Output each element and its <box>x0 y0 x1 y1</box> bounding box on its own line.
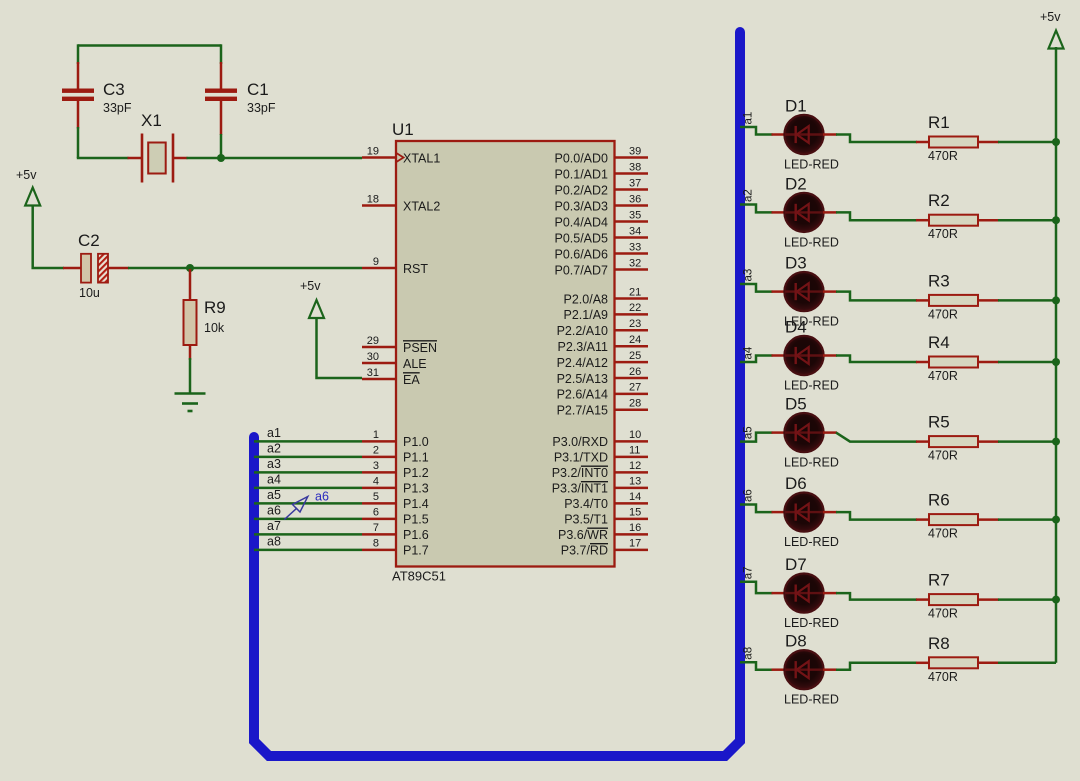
svg-text:470R: 470R <box>928 369 958 383</box>
svg-text:a7: a7 <box>743 567 755 580</box>
svg-text:470R: 470R <box>928 670 958 684</box>
LED D5 (LED-RED) <box>772 413 838 452</box>
svg-text:a5: a5 <box>743 426 755 439</box>
svg-text:R1: R1 <box>928 113 950 132</box>
svg-text:D8: D8 <box>785 632 807 651</box>
pin 35 P0.4/AD4 <box>554 209 648 229</box>
wire net a8 bus to P1.7 <box>254 549 362 552</box>
svg-text:C2: C2 <box>78 231 100 250</box>
resistor R9 (10k pulldown) <box>184 269 197 360</box>
svg-text:a6: a6 <box>315 490 329 504</box>
svg-text:15: 15 <box>629 507 641 519</box>
svg-text:18: 18 <box>367 193 379 205</box>
svg-text:LED-RED: LED-RED <box>784 616 839 630</box>
svg-text:32: 32 <box>629 257 641 269</box>
svg-text:a7: a7 <box>267 519 281 533</box>
power +5v symbol (left) <box>25 188 40 206</box>
pin 29 PSEN <box>362 335 437 355</box>
bus (blue) left/bottom/right <box>254 32 740 756</box>
svg-text:470R: 470R <box>928 227 958 241</box>
junction rail row 6 <box>1052 516 1060 524</box>
svg-text:+5v: +5v <box>300 279 321 293</box>
svg-text:470R: 470R <box>928 149 958 163</box>
wire C3 top vertical <box>77 44 80 64</box>
svg-text:P2.6/A14: P2.6/A14 <box>557 388 608 402</box>
junction rail row 7 <box>1052 596 1060 604</box>
svg-text:P0.1/AD1: P0.1/AD1 <box>554 167 608 181</box>
op: U1 AT89C51 chip body <box>396 141 615 567</box>
svg-text:P2.2/A10: P2.2/A10 <box>557 324 608 338</box>
pin 5 P1.4 <box>362 491 429 511</box>
svg-text:P0.4/AD4: P0.4/AD4 <box>554 215 608 229</box>
svg-text:35: 35 <box>629 209 641 221</box>
wire bus tap a7 <box>740 582 773 593</box>
svg-text:26: 26 <box>629 366 641 378</box>
wire R7 to +5v rail <box>998 598 1056 601</box>
wire bus tap a1 <box>740 127 773 135</box>
svg-text:P1.2: P1.2 <box>403 466 429 480</box>
svg-text:+5v: +5v <box>1040 10 1061 24</box>
pin 17 P3.7/RD <box>561 538 648 558</box>
svg-text:AT89C51: AT89C51 <box>392 569 446 584</box>
capacitor C1 <box>205 62 237 135</box>
LED D6 (LED-RED) <box>772 492 838 531</box>
wire bus tap a2 <box>740 205 773 213</box>
wire C3 bottom vertical <box>77 127 80 158</box>
svg-text:LED-RED: LED-RED <box>784 235 839 249</box>
svg-text:R5: R5 <box>928 413 950 432</box>
svg-text:R9: R9 <box>204 298 226 317</box>
wire D4 to R4 <box>836 356 917 363</box>
svg-text:37: 37 <box>629 177 641 189</box>
svg-text:P1.3: P1.3 <box>403 482 429 496</box>
pin 13 P3.3/INT1 <box>552 476 648 496</box>
pin 2 P1.1 <box>362 445 429 465</box>
wire +5v to EA pin <box>317 317 363 378</box>
svg-text:28: 28 <box>629 398 641 410</box>
svg-text:2: 2 <box>373 445 379 457</box>
LED D2 (LED-RED) <box>772 193 838 232</box>
svg-text:a1: a1 <box>743 112 755 125</box>
junction rail row 5 <box>1052 438 1060 446</box>
svg-text:24: 24 <box>629 334 641 346</box>
svg-text:P2.4/A12: P2.4/A12 <box>557 356 608 370</box>
svg-text:X1: X1 <box>141 111 162 130</box>
svg-text:33pF: 33pF <box>103 101 132 115</box>
svg-text:23: 23 <box>629 318 641 330</box>
resistor R2 (470R) <box>916 215 999 226</box>
svg-text:25: 25 <box>629 350 641 362</box>
capacitor C3 <box>62 62 94 129</box>
svg-text:P0.3/AD3: P0.3/AD3 <box>554 199 608 213</box>
svg-text:PSEN: PSEN <box>403 341 437 355</box>
ground symbol <box>175 394 206 412</box>
svg-text:D5: D5 <box>785 395 807 414</box>
svg-text:6: 6 <box>373 507 379 519</box>
pin 19 XTAL1 clock arrow <box>396 153 404 163</box>
svg-text:P1.7: P1.7 <box>403 544 429 558</box>
svg-text:P2.0/A8: P2.0/A8 <box>564 292 609 306</box>
svg-text:1: 1 <box>373 429 379 441</box>
wire C1 top vertical <box>220 44 223 64</box>
svg-text:R6: R6 <box>928 491 950 510</box>
svg-text:P0.0/AD0: P0.0/AD0 <box>554 151 608 165</box>
svg-text:D1: D1 <box>785 97 807 116</box>
svg-text:XTAL2: XTAL2 <box>403 199 440 213</box>
svg-text:D7: D7 <box>785 555 807 574</box>
wire C2 to RST pin <box>128 267 362 270</box>
pin 9 RST <box>362 256 428 276</box>
svg-text:C1: C1 <box>247 80 269 99</box>
wire top loop horizontal <box>78 44 221 47</box>
wire R8 to +5v rail <box>998 662 1056 665</box>
svg-text:P0.5/AD5: P0.5/AD5 <box>554 231 608 245</box>
wire bus tap a5 <box>740 433 773 442</box>
svg-text:8: 8 <box>373 538 379 550</box>
wire net a2 bus to P1.1 <box>254 456 362 459</box>
wire R2 to +5v rail <box>998 219 1056 222</box>
pin 8 P1.7 <box>362 538 429 558</box>
svg-text:13: 13 <box>629 476 641 488</box>
wire D7 to R7 <box>836 593 917 600</box>
svg-text:34: 34 <box>629 225 641 237</box>
svg-text:a8: a8 <box>267 535 281 549</box>
svg-text:10: 10 <box>629 429 641 441</box>
svg-text:P3.7/RD: P3.7/RD <box>561 544 608 558</box>
pin 7 P1.6 <box>362 522 429 542</box>
pin 1 P1.0 <box>362 429 429 449</box>
wire R3 to +5v rail <box>998 299 1056 302</box>
svg-text:P3.5/T1: P3.5/T1 <box>564 513 608 527</box>
resistor R6 (470R) <box>916 514 999 525</box>
svg-text:P2.1/A9: P2.1/A9 <box>564 308 609 322</box>
svg-text:17: 17 <box>629 538 641 550</box>
svg-text:16: 16 <box>629 522 641 534</box>
svg-text:a1: a1 <box>267 426 281 440</box>
resistor R3 (470R) <box>916 295 999 306</box>
svg-text:XTAL1: XTAL1 <box>403 151 440 165</box>
pin 3 P1.2 <box>362 460 429 480</box>
svg-text:EA: EA <box>403 373 420 387</box>
pin 27 P2.6/A14 <box>557 382 648 402</box>
crystal X1 <box>128 134 188 183</box>
svg-text:P0.2/AD2: P0.2/AD2 <box>554 183 608 197</box>
svg-text:30: 30 <box>367 351 379 363</box>
pin 11 P3.1/TXD <box>554 445 648 465</box>
svg-text:12: 12 <box>629 460 641 472</box>
svg-text:P3.0/RXD: P3.0/RXD <box>552 435 608 449</box>
svg-text:R4: R4 <box>928 333 950 352</box>
resistor R7 (470R) <box>916 594 999 605</box>
wire R1 to +5v rail <box>998 141 1056 144</box>
svg-text:a3: a3 <box>267 457 281 471</box>
svg-text:19: 19 <box>367 145 379 157</box>
resistor R4 (470R) <box>916 357 999 368</box>
svg-text:P1.4: P1.4 <box>403 497 429 511</box>
resistor R8 (470R) <box>916 657 999 668</box>
wire D6 to R6 <box>836 512 917 520</box>
power +5v symbol (rail) <box>1049 31 1064 49</box>
svg-text:36: 36 <box>629 193 641 205</box>
svg-text:D2: D2 <box>785 174 807 193</box>
wire R6 to +5v rail <box>998 518 1056 521</box>
pin 4 P1.3 <box>362 476 429 496</box>
pin 22 P2.1/A9 <box>564 302 648 322</box>
pin 31 EA <box>362 367 420 387</box>
svg-text:ALE: ALE <box>403 357 427 371</box>
svg-text:U1: U1 <box>392 120 414 139</box>
svg-text:470R: 470R <box>928 449 958 463</box>
svg-text:RST: RST <box>403 262 428 276</box>
pin 19 XTAL1 <box>362 145 440 165</box>
pin 15 P3.5/T1 <box>564 507 648 527</box>
svg-text:a4: a4 <box>267 473 281 487</box>
svg-text:P0.7/AD7: P0.7/AD7 <box>554 263 608 277</box>
wire net a5 bus to P1.4 <box>254 502 362 505</box>
pin 37 P0.2/AD2 <box>554 177 648 197</box>
svg-text:a6: a6 <box>267 504 281 518</box>
svg-text:P1.6: P1.6 <box>403 528 429 542</box>
pin 36 P0.3/AD3 <box>554 193 648 213</box>
wire D3 to R3 <box>836 292 917 301</box>
pin 16 P3.6/WR <box>558 522 648 542</box>
svg-text:C3: C3 <box>103 80 125 99</box>
svg-text:11: 11 <box>629 445 640 457</box>
wire R9 to ground <box>189 358 192 394</box>
svg-text:LED-RED: LED-RED <box>784 158 839 172</box>
junction rail row 1 <box>1052 138 1060 146</box>
svg-text:D3: D3 <box>785 254 807 273</box>
svg-text:31: 31 <box>367 367 379 379</box>
svg-text:7: 7 <box>373 522 379 534</box>
svg-text:a2: a2 <box>267 442 281 456</box>
wire X1 to XTAL1 pin <box>187 157 363 160</box>
junction node RST <box>186 264 194 272</box>
svg-text:a2: a2 <box>743 189 755 202</box>
svg-text:470R: 470R <box>928 527 958 541</box>
pin 21 P2.0/A8 <box>564 286 648 306</box>
svg-text:D4: D4 <box>785 318 807 337</box>
wire R5 to +5v rail <box>998 440 1056 443</box>
pin 26 P2.5/A13 <box>557 366 648 386</box>
svg-text:P2.3/A11: P2.3/A11 <box>557 340 608 354</box>
svg-text:33: 33 <box>629 241 641 253</box>
junction node XTAL1 <box>217 154 225 162</box>
svg-text:P3.4/T0: P3.4/T0 <box>564 497 608 511</box>
svg-text:a8: a8 <box>743 647 755 660</box>
wire +5v down to C2 <box>33 205 64 268</box>
junction rail row 2 <box>1052 216 1060 224</box>
LED D4 (LED-RED) <box>772 336 838 375</box>
svg-text:R7: R7 <box>928 571 950 590</box>
wire D8 to R8 <box>836 663 917 670</box>
svg-text:LED-RED: LED-RED <box>784 693 839 707</box>
wire C3 to X1 <box>77 157 129 160</box>
power +5v symbol (EA) <box>309 300 324 318</box>
LED D8 (LED-RED) <box>772 650 838 689</box>
wire R4 to +5v rail <box>998 361 1056 364</box>
pin 39 P0.0/AD0 <box>554 145 648 165</box>
pin 18 XTAL2 <box>362 193 440 213</box>
svg-text:R2: R2 <box>928 191 950 210</box>
pin 6 P1.5 <box>362 507 429 527</box>
svg-text:P1.5: P1.5 <box>403 513 429 527</box>
wire bus tap a8 <box>740 662 773 670</box>
svg-text:22: 22 <box>629 302 641 314</box>
svg-text:470R: 470R <box>928 607 958 621</box>
svg-text:9: 9 <box>373 256 379 268</box>
svg-text:33pF: 33pF <box>247 101 276 115</box>
wire D2 to R2 <box>836 212 917 220</box>
svg-text:P2.7/A15: P2.7/A15 <box>557 404 608 418</box>
svg-text:P3.1/TXD: P3.1/TXD <box>554 451 608 465</box>
svg-text:38: 38 <box>629 161 641 173</box>
svg-text:5: 5 <box>373 491 379 503</box>
wire bus tap a6 <box>740 505 773 513</box>
resistor R1 (470R) <box>916 137 999 148</box>
pin 33 P0.6/AD6 <box>554 241 648 261</box>
svg-text:P2.5/A13: P2.5/A13 <box>557 372 608 386</box>
svg-text:P1.0: P1.0 <box>403 435 429 449</box>
pin 25 P2.4/A12 <box>557 350 648 370</box>
pin 32 P0.7/AD7 <box>554 257 648 277</box>
wire net a7 bus to P1.6 <box>254 533 362 536</box>
wire bus tap a3 <box>740 284 773 292</box>
wire bus tap a4 <box>740 356 773 363</box>
wire C1 bottom to node <box>220 134 223 158</box>
svg-text:4: 4 <box>373 476 379 488</box>
svg-text:470R: 470R <box>928 307 958 321</box>
svg-text:LED-RED: LED-RED <box>784 379 839 393</box>
LED D7 (LED-RED) <box>772 574 838 613</box>
svg-text:P3.6/WR: P3.6/WR <box>558 528 608 542</box>
pin 38 P0.1/AD1 <box>554 161 648 181</box>
pin 10 P3.0/RXD <box>552 429 648 449</box>
pin 28 P2.7/A15 <box>557 398 648 418</box>
wire label balloon a6 with cursor arrow <box>284 490 329 520</box>
pin 34 P0.5/AD5 <box>554 225 648 245</box>
svg-text:10u: 10u <box>79 286 100 300</box>
capacitor C2 (electrolytic 10u) <box>63 254 129 283</box>
pin 30 ALE <box>362 351 427 371</box>
svg-text:P3.3/INT1: P3.3/INT1 <box>552 482 608 496</box>
svg-text:14: 14 <box>629 491 641 503</box>
wire net a6 bus to P1.5 <box>254 518 362 521</box>
wire D1 to R1 <box>836 135 917 143</box>
pin 23 P2.2/A10 <box>557 318 648 338</box>
svg-text:P1.1: P1.1 <box>403 451 429 465</box>
svg-text:27: 27 <box>629 382 641 394</box>
svg-text:a6: a6 <box>743 489 755 502</box>
pin 12 P3.2/INT0 <box>552 460 648 480</box>
svg-text:39: 39 <box>629 145 641 157</box>
svg-text:LED-RED: LED-RED <box>784 535 839 549</box>
svg-text:29: 29 <box>367 335 379 347</box>
svg-text:a4: a4 <box>743 346 755 359</box>
svg-text:a3: a3 <box>743 269 755 282</box>
svg-text:21: 21 <box>629 286 641 298</box>
junction rail row 4 <box>1052 358 1060 366</box>
svg-text:P3.2/INT0: P3.2/INT0 <box>552 466 608 480</box>
svg-text:LED-RED: LED-RED <box>784 456 839 470</box>
svg-text:a5: a5 <box>267 488 281 502</box>
pin 14 P3.4/T0 <box>564 491 648 511</box>
svg-text:10k: 10k <box>204 321 225 335</box>
svg-text:P0.6/AD6: P0.6/AD6 <box>554 247 608 261</box>
wire +5v rail vertical (right) <box>1055 47 1058 663</box>
svg-text:R8: R8 <box>928 634 950 653</box>
LED D3 (LED-RED) <box>772 272 838 311</box>
wire net a3 bus to P1.2 <box>254 471 362 474</box>
svg-text:D6: D6 <box>785 474 807 493</box>
wire net a4 bus to P1.3 <box>254 487 362 490</box>
resistor R5 (470R) <box>916 436 999 447</box>
junction rail row 3 <box>1052 296 1060 304</box>
svg-text:+5v: +5v <box>16 168 37 182</box>
pin 24 P2.3/A11 <box>557 334 648 354</box>
wire D5 to R5 <box>836 433 917 442</box>
LED D1 (LED-RED) <box>772 115 838 154</box>
svg-text:R3: R3 <box>928 271 950 290</box>
wire net a1 bus to P1.0 <box>254 440 362 443</box>
svg-text:3: 3 <box>373 460 379 472</box>
